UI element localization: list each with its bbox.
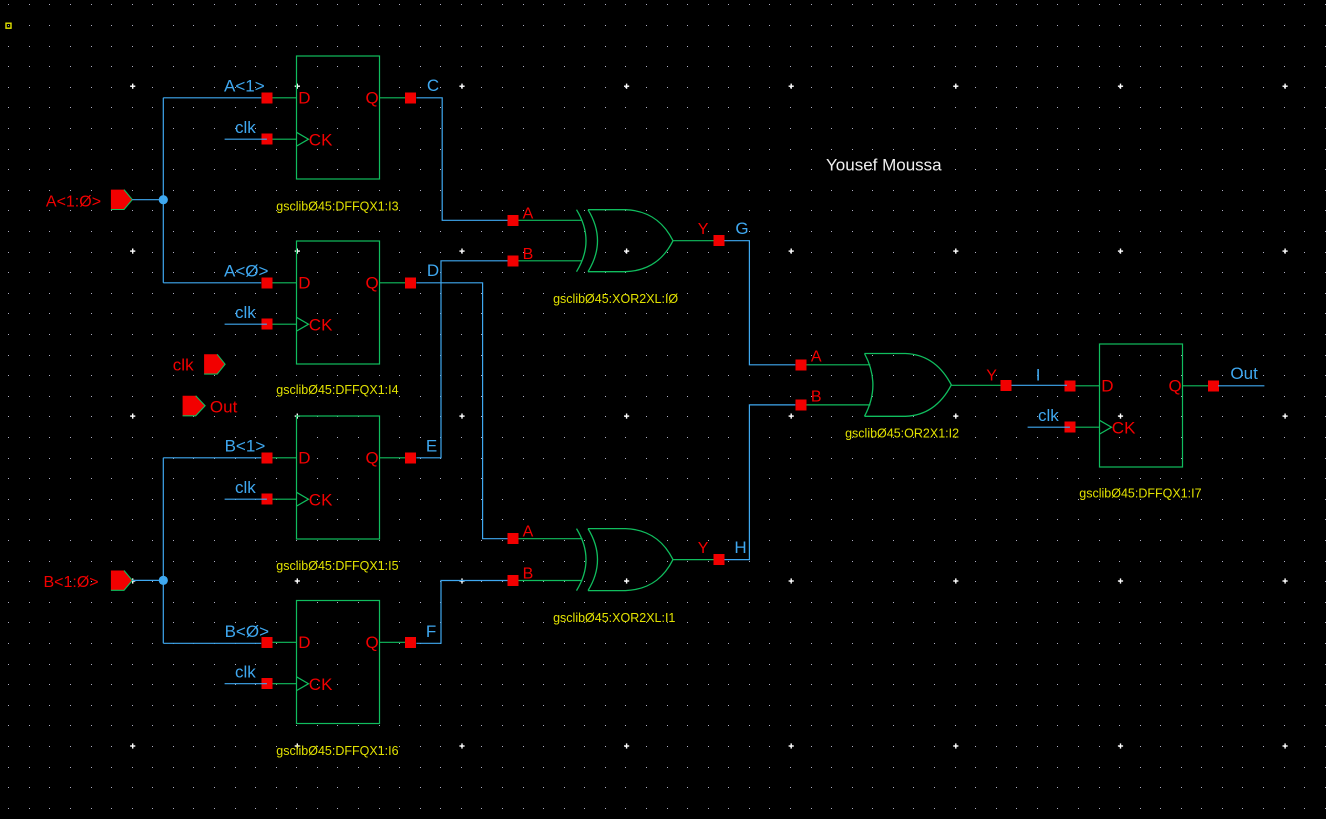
XOR gate gsclib045:XOR2XL:I1 body [577, 529, 674, 591]
svg-text:A: A [811, 349, 822, 366]
svg-text:D: D [298, 448, 310, 467]
clk stub wire at CK of I4 [225, 323, 267, 325]
svg-text:clk: clk [173, 356, 194, 375]
green stub wire D input of I4 [267, 282, 297, 284]
green stub wire CK input of I7 [1070, 426, 1100, 428]
green stub wire Y output of I1 [673, 559, 719, 561]
junction node A [159, 195, 168, 204]
svg-text:D: D [427, 261, 439, 280]
svg-text:A<1:Ø>: A<1:Ø> [46, 193, 101, 210]
svg-text:I: I [1036, 366, 1041, 385]
svg-text:Out: Out [210, 397, 238, 416]
svg-text:gsclibØ45:DFFQX1:I6: gsclibØ45:DFFQX1:I6 [276, 744, 398, 758]
wire net A<1> [163, 97, 261, 99]
svg-text:CK: CK [309, 491, 333, 510]
green stub wire Y output of I2 [951, 384, 1006, 386]
svg-text:Q: Q [365, 633, 378, 652]
svg-text:E: E [426, 437, 437, 456]
green stub wire B input of I0 [513, 260, 583, 262]
origin marker [6, 23, 11, 28]
svg-text:B: B [523, 566, 534, 583]
svg-text:Out: Out [1230, 364, 1258, 383]
pin square Y output of I0 [713, 235, 724, 246]
pin square Y output of I2 [1001, 380, 1012, 391]
pin square CK input of I7 [1064, 422, 1075, 433]
wire B<1:0> pin to junction [132, 579, 163, 581]
svg-text:CK: CK [309, 131, 333, 150]
svg-text:D: D [298, 273, 310, 292]
svg-text:G: G [735, 219, 748, 238]
svg-text:D: D [298, 88, 310, 107]
svg-text:A<Ø>: A<Ø> [224, 261, 268, 280]
svg-text:clk: clk [235, 662, 256, 681]
svg-text:Q: Q [365, 88, 378, 107]
green stub wire CK input of I6 [267, 683, 297, 685]
svg-text:B<1:Ø>: B<1:Ø> [44, 574, 99, 591]
svg-text:gsclibØ45:XOR2XL:I1: gsclibØ45:XOR2XL:I1 [553, 611, 675, 625]
svg-text:CK: CK [309, 675, 333, 694]
wire vertical A bus branch [162, 98, 164, 283]
D flip-flop I7 (gsclib045:DFFQX1:I7) body [1100, 344, 1183, 467]
green stub wire A input of I0 [513, 219, 583, 221]
pin square Q output of I6 [405, 637, 416, 648]
svg-text:gsclibØ45:DFFQX1:I3: gsclibØ45:DFFQX1:I3 [276, 200, 398, 214]
D flip-flop I3 (gsclib045:DFFQX1:I3) body [297, 56, 380, 179]
wire net I (I2.Y to I7.D) [1012, 384, 1068, 386]
wire net E (I5.Q to I0.B) [416, 261, 507, 458]
green stub wire Q output of I4 [380, 282, 411, 284]
svg-text:clk: clk [235, 303, 256, 322]
pin square D input of I7 [1064, 380, 1075, 391]
pin square D input of I4 [261, 277, 272, 288]
wire net B<1> [163, 457, 261, 459]
svg-text:B<Ø>: B<Ø> [225, 622, 269, 641]
svg-text:D: D [1101, 376, 1113, 395]
green stub wire B input of I1 [513, 580, 583, 582]
green stub wire Y output of I0 [673, 240, 719, 242]
svg-text:gsclibØ45:DFFQX1:I5: gsclibØ45:DFFQX1:I5 [276, 559, 398, 573]
svg-text:CK: CK [1112, 419, 1136, 438]
svg-text:Q: Q [365, 448, 378, 467]
svg-text:Yousef Moussa: Yousef Moussa [826, 156, 942, 175]
svg-text:A<1>: A<1> [224, 77, 265, 96]
green stub wire B input of I2 [801, 404, 871, 406]
pin square A input of I0 [508, 215, 519, 226]
wire A<1:0> pin to junction [132, 199, 163, 201]
green stub wire CK input of I4 [267, 323, 297, 325]
output port pin Out [183, 396, 206, 416]
svg-text:Y: Y [698, 540, 709, 557]
D flip-flop I4 (gsclib045:DFFQX1:I4) body [297, 241, 380, 364]
D flip-flop I6 (gsclib045:DFFQX1:I6) body [297, 601, 380, 724]
svg-text:clk: clk [235, 478, 256, 497]
clk stub wire at CK of I5 [225, 498, 267, 500]
svg-text:clk: clk [1038, 406, 1059, 425]
pin square Q output of I3 [405, 92, 416, 103]
svg-text:Y: Y [986, 368, 997, 385]
svg-text:Q: Q [1168, 376, 1181, 395]
input port pin A<1:0> [111, 190, 132, 210]
green stub wire Q output of I5 [380, 457, 411, 459]
D flip-flop I5 (gsclib045:DFFQX1:I5) body [297, 416, 380, 539]
svg-text:gsclibØ45:XOR2XL:IØ: gsclibØ45:XOR2XL:IØ [553, 292, 678, 306]
pin square A input of I2 [795, 359, 806, 370]
pin square CK input of I5 [261, 494, 272, 505]
pin square CK input of I3 [261, 134, 272, 145]
pin square CK input of I4 [261, 319, 272, 330]
input port pin B<1:0> [111, 571, 132, 591]
green stub wire Q output of I6 [380, 641, 411, 643]
green stub wire D input of I3 [267, 97, 297, 99]
svg-text:B: B [523, 246, 534, 263]
clk stub wire at CK of I6 [225, 683, 267, 685]
green stub wire D input of I7 [1070, 385, 1100, 387]
OR gate gsclib045:OR2X1:I2 body [865, 354, 952, 417]
svg-text:F: F [426, 622, 436, 641]
wire net D (I4.Q to I1.A) [416, 283, 507, 539]
svg-text:H: H [734, 538, 746, 557]
input port pin clk [204, 354, 225, 374]
svg-text:gsclibØ45:DFFQX1:I7: gsclibØ45:DFFQX1:I7 [1079, 487, 1201, 501]
wire net H (I1.Y to I2.B) [724, 405, 795, 560]
green stub wire CK input of I5 [267, 498, 297, 500]
svg-text:C: C [427, 76, 439, 95]
green stub wire Q output of I3 [380, 97, 411, 99]
wire net A<0> [163, 282, 261, 284]
green stub wire A input of I1 [513, 538, 583, 540]
pin square D input of I3 [261, 92, 272, 103]
svg-text:A: A [523, 524, 534, 541]
svg-text:clk: clk [235, 118, 256, 137]
pin square Y output of I1 [713, 554, 724, 565]
green stub wire A input of I2 [801, 364, 871, 366]
wire net B<0> [163, 642, 261, 644]
wire vertical B bus branch [162, 458, 164, 644]
pin square B input of I1 [508, 575, 519, 586]
wire net Out (I7.Q) [1218, 385, 1264, 387]
wire net F (I6.Q to I1.B) [416, 581, 507, 644]
green stub wire CK input of I3 [267, 138, 297, 140]
svg-text:B: B [811, 388, 822, 405]
pin square D input of I6 [261, 637, 272, 648]
svg-text:Y: Y [698, 221, 709, 238]
pin square D input of I5 [261, 452, 272, 463]
pin square B input of I2 [795, 399, 806, 410]
pin square CK input of I6 [261, 678, 272, 689]
wire net C (I3.Q to I0.A) [416, 98, 507, 221]
pin square Q output of I4 [405, 277, 416, 288]
svg-text:CK: CK [309, 316, 333, 335]
junction node B [159, 576, 168, 585]
svg-text:gsclibØ45:OR2X1:I2: gsclibØ45:OR2X1:I2 [845, 426, 959, 440]
pin square Q output of I5 [405, 452, 416, 463]
svg-text:A: A [523, 205, 534, 222]
svg-text:gsclibØ45:DFFQX1:I4: gsclibØ45:DFFQX1:I4 [276, 383, 398, 397]
green stub wire D input of I6 [267, 641, 297, 643]
green stub wire Q output of I7 [1183, 385, 1214, 387]
pin square B input of I0 [508, 255, 519, 266]
wire net G (I0.Y to I2.A) [724, 241, 795, 365]
pin square A input of I1 [508, 533, 519, 544]
pin square Q output of I7 [1208, 380, 1219, 391]
green stub wire D input of I5 [267, 457, 297, 459]
svg-text:B<1>: B<1> [225, 437, 266, 456]
clk stub wire at CK of I3 [225, 138, 267, 140]
svg-text:Q: Q [365, 273, 378, 292]
svg-text:D: D [298, 633, 310, 652]
clk stub wire at CK of I7 [1028, 426, 1070, 428]
XOR gate gsclib045:XOR2XL:I0 body [577, 210, 674, 272]
